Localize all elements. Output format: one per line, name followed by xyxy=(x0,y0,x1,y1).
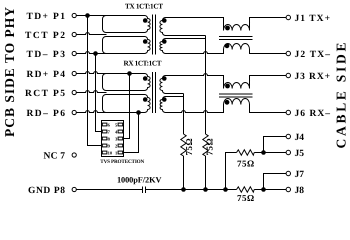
T1 secondary winding upper + L1 choke winding upper + wire to J1 xyxy=(160,18,286,36)
svg-text:RX 1CT:1CT: RX 1CT:1CT xyxy=(124,59,162,67)
junction P1/TVS xyxy=(85,13,90,18)
U1 pin 4 xyxy=(118,130,123,133)
T1 secondary winding lower + L1 choke winding lower + wire to J2 xyxy=(160,39,286,54)
wire P1 to T1 primary xyxy=(76,15,106,17)
T2 secondary dot upper xyxy=(162,76,167,81)
terminal J7 xyxy=(286,171,290,175)
wire P6 to T2 primary xyxy=(76,111,106,113)
wire TD+ to TVS pin9 xyxy=(88,16,102,146)
T1 primary dot lower xyxy=(143,39,148,44)
wire P3 to T1 primary xyxy=(76,52,106,54)
wire RD+ to TVS pin3 xyxy=(124,74,130,139)
svg-text:J6 RX–: J6 RX– xyxy=(295,109,331,119)
terminal P8 xyxy=(72,187,76,191)
svg-text:GND P8: GND P8 xyxy=(28,186,65,196)
T2 secondary dot lower xyxy=(162,97,167,102)
U1 pin 3 xyxy=(118,137,123,140)
svg-text:75Ω: 75Ω xyxy=(184,138,194,155)
wire T1 center tap to R2 xyxy=(205,36,207,135)
ground rail xyxy=(184,189,237,191)
svg-text:7: 7 xyxy=(108,129,111,134)
terminal J1 xyxy=(286,15,290,19)
svg-text:TD+ P1: TD+ P1 xyxy=(27,12,66,22)
svg-text:75Ω: 75Ω xyxy=(237,193,254,201)
T1 secondary dot lower xyxy=(162,39,167,44)
T2 primary winding lower xyxy=(103,95,151,113)
L2 choke dot upper xyxy=(225,84,230,89)
wire R3 to rail xyxy=(226,153,237,190)
svg-text:10: 10 xyxy=(108,150,113,155)
terminal P6 xyxy=(72,110,76,114)
wire J5 xyxy=(254,152,286,154)
svg-text:PCB SIDE TO PHY: PCB SIDE TO PHY xyxy=(2,7,17,137)
svg-text:J1 TX+: J1 TX+ xyxy=(295,14,331,24)
wire RD- to TVS pin1 xyxy=(124,113,139,153)
T2 secondary winding upper + L2 choke winding upper + wire to J3 xyxy=(160,74,286,94)
svg-text:J8: J8 xyxy=(295,186,305,196)
wire C1 to rail xyxy=(146,189,184,191)
T1 primary dot upper xyxy=(143,18,148,23)
junction P6/TVS xyxy=(136,110,141,115)
T2 primary dot lower xyxy=(143,97,148,102)
U1 pin 8 xyxy=(102,137,107,140)
L1 choke dot upper xyxy=(225,26,230,31)
svg-text:75Ω: 75Ω xyxy=(205,138,215,155)
terminal J2 xyxy=(286,51,290,55)
wire P5 to T2 center tap xyxy=(76,91,106,93)
terminal J6 xyxy=(286,110,290,114)
svg-text:RD+ P4: RD+ P4 xyxy=(27,70,66,80)
wire GND P8 to C1 xyxy=(76,189,142,191)
svg-text:J2 TX–: J2 TX– xyxy=(295,50,331,60)
svg-text:TD– P3: TD– P3 xyxy=(27,50,66,60)
wire J4 bracket xyxy=(264,137,287,153)
T1 primary winding upper xyxy=(103,16,151,33)
capacitor C1 1000pF/2KV xyxy=(143,187,146,194)
wire TD- to TVS pin7 xyxy=(96,54,102,132)
L1 choke core xyxy=(219,37,253,40)
svg-text:8: 8 xyxy=(108,136,111,141)
svg-text:TCT P2: TCT P2 xyxy=(25,31,65,41)
svg-text:J5: J5 xyxy=(295,149,305,159)
svg-text:1000pF/2KV: 1000pF/2KV xyxy=(117,175,162,184)
terminal J5 xyxy=(286,150,290,154)
U1 pin 9 xyxy=(102,144,107,147)
T1 core xyxy=(153,15,156,55)
U1 pin 10 xyxy=(102,151,107,154)
svg-text:J3 RX+: J3 RX+ xyxy=(295,72,331,82)
T2 primary winding upper xyxy=(103,74,151,91)
svg-text:75Ω: 75Ω xyxy=(237,159,254,169)
U1 pin 1 xyxy=(118,151,123,154)
wire T2 center tap to R1 xyxy=(183,94,185,135)
terminal pin 7 NC xyxy=(72,153,76,157)
terminal P1 xyxy=(72,13,76,17)
wire P2 to T1 center tap xyxy=(76,33,106,35)
svg-text:J4: J4 xyxy=(295,133,305,143)
U1 pin 2 xyxy=(118,144,123,147)
L2 choke core xyxy=(219,94,253,97)
terminal P3 xyxy=(72,51,76,55)
L2 choke dot lower xyxy=(225,100,230,105)
T1 secondary dot upper xyxy=(162,18,167,23)
T2 core xyxy=(153,72,156,113)
junction P3/TVS xyxy=(93,51,98,56)
T1 primary winding lower xyxy=(103,37,151,54)
svg-text:J7: J7 xyxy=(295,170,305,180)
TVS block U1 body xyxy=(102,121,124,157)
svg-text:9: 9 xyxy=(108,143,111,148)
resistor R1 75ohm xyxy=(181,134,186,156)
U1 pin 5 xyxy=(118,123,123,126)
junction rail/R3 xyxy=(223,187,228,192)
terminal J8 xyxy=(286,187,290,191)
T2 secondary winding lower + L2 choke winding lower + wire to J6 xyxy=(160,97,286,113)
svg-text:RCT P5: RCT P5 xyxy=(25,89,65,99)
junction J4/J5 xyxy=(261,150,266,155)
L1 choke dot lower xyxy=(225,43,230,48)
U1 pin 6 xyxy=(102,123,107,126)
wire J7 bracket xyxy=(264,174,287,190)
wire R2 to ground rail xyxy=(205,156,207,190)
terminal P5 xyxy=(72,90,76,94)
terminal J4 xyxy=(286,134,290,138)
terminal P4 xyxy=(72,71,76,75)
resistor R4 75ohm xyxy=(237,187,255,192)
junction R2/rail xyxy=(203,187,208,192)
svg-text:CABLE SIDE: CABLE SIDE xyxy=(334,43,349,149)
resistor R2 75ohm xyxy=(203,134,208,156)
wire P4 to T2 primary xyxy=(76,72,106,74)
svg-text:NC 7: NC 7 xyxy=(44,151,66,161)
terminal J3 xyxy=(286,73,290,77)
junction P4/TVS xyxy=(127,71,132,76)
wire R4 to J8 junction xyxy=(254,189,286,191)
svg-text:RD– P6: RD– P6 xyxy=(27,109,66,119)
T2 primary dot upper xyxy=(143,76,148,81)
resistor R3 75ohm xyxy=(237,150,255,155)
junction J7/J8 xyxy=(261,187,266,192)
U1 pin 7 xyxy=(102,130,107,133)
wire R1 to ground rail xyxy=(183,156,185,190)
svg-text:TX 1CT:1CT: TX 1CT:1CT xyxy=(125,2,163,10)
svg-text:TVS PROTECTION: TVS PROTECTION xyxy=(100,159,144,165)
svg-text:6: 6 xyxy=(108,122,111,127)
junction R1/rail xyxy=(181,187,186,192)
terminal P2 xyxy=(72,32,76,36)
